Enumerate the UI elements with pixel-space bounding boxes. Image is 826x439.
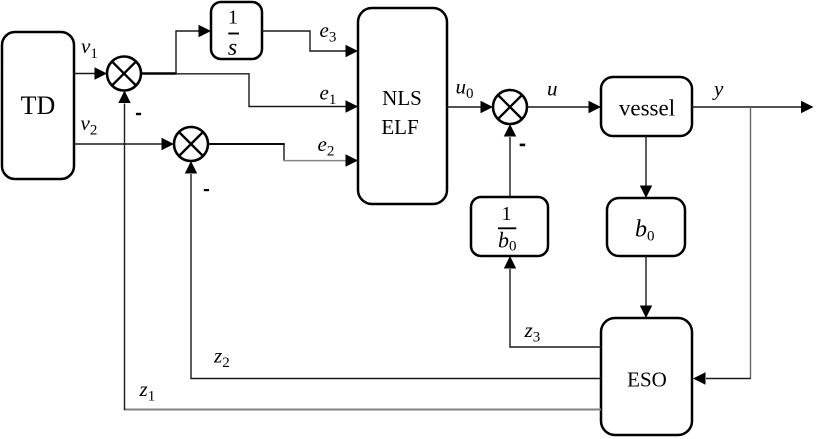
gain block b0 (607, 198, 685, 256)
wire e1: S1 to NLS ELF (141, 74, 358, 113)
summing junction S3 (493, 90, 527, 124)
wire branch to integrator (176, 25, 211, 74)
wire z1: ESO to S1 (118, 91, 601, 411)
svg-text:vessel: vessel (619, 96, 675, 121)
svg-text:1: 1 (502, 203, 512, 225)
wire z3: ESO to 1/b0 (504, 256, 601, 347)
svg-text:y: y (712, 77, 724, 101)
svg-text:TD: TD (21, 91, 56, 120)
svg-text:ELF: ELF (381, 115, 418, 139)
summing junction S1 (107, 57, 141, 91)
block NLS ELF (358, 8, 447, 204)
wire v1: TD to S1 (74, 67, 107, 79)
svg-text:s: s (228, 35, 237, 61)
wire vessel to b0 (640, 136, 652, 198)
wire z2: ESO to S2 (185, 161, 601, 379)
svg-text:u: u (547, 77, 558, 101)
wire 1/b0 to S3 (504, 124, 516, 197)
wire v2: TD to S2 (74, 138, 174, 150)
svg-text:ESO: ESO (627, 368, 667, 392)
wire y feedback to ESO (693, 107, 751, 385)
block vessel (601, 77, 692, 136)
minus sign at S3 (520, 144, 526, 147)
wire u: S3 to vessel (527, 101, 601, 113)
integrator block 1/s (211, 2, 262, 61)
gain block 1/b0 (471, 197, 548, 256)
minus sign at S1 (136, 113, 141, 115)
block TD (2, 32, 74, 179)
wire b0 to ESO (640, 256, 652, 318)
wire e3: integrator to NLS ELF (262, 31, 358, 57)
svg-text:NLS: NLS (382, 86, 422, 110)
block ESO (601, 318, 692, 435)
svg-text:1: 1 (228, 7, 238, 29)
wire u0: NLS ELF to S3 (447, 101, 493, 113)
wire y: vessel output (692, 101, 814, 113)
summing junction S2 (174, 127, 208, 161)
wire e2: S2 to NLS ELF (208, 144, 358, 167)
minus sign at S2 (204, 189, 209, 191)
